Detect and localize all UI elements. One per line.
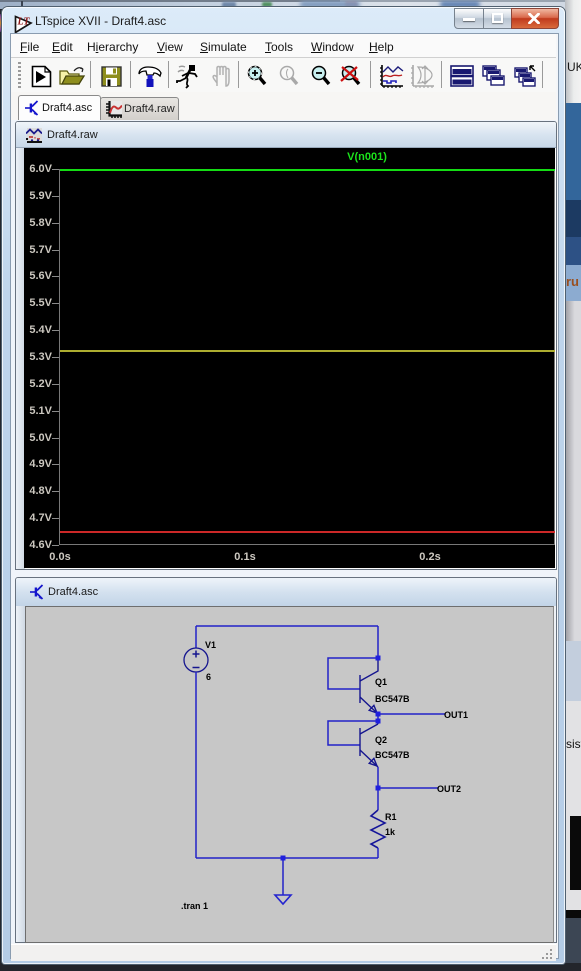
svg-text:BC547B: BC547B bbox=[375, 694, 410, 704]
node OUT1 junction bbox=[376, 712, 381, 717]
ground bbox=[275, 895, 291, 904]
svg-text:.tran 1: .tran 1 bbox=[181, 901, 208, 911]
desktop bottom strip bbox=[0, 963, 581, 971]
node Q1 collector junction bbox=[376, 656, 381, 661]
svg-text:6: 6 bbox=[206, 672, 211, 682]
resistor R1 bbox=[371, 810, 385, 848]
wire R1 bottom lead bbox=[377, 848, 379, 858]
wire top rail bbox=[196, 625, 378, 627]
separators bbox=[90, 61, 91, 88]
legend V(n001) bbox=[317, 151, 417, 163]
icon: zoom back (gray) bbox=[278, 65, 302, 88]
icon: zoom full extents bbox=[338, 65, 364, 88]
svg-text:LT: LT bbox=[17, 17, 31, 28]
icon: tile horizontal bbox=[450, 65, 474, 87]
y ticks bbox=[52, 169, 59, 170]
icon: zoom out bbox=[310, 65, 334, 88]
plot box bbox=[59, 169, 555, 545]
schematic canvas bbox=[25, 606, 554, 943]
tab bar bbox=[11, 92, 556, 121]
desktop right strip bbox=[565, 0, 581, 971]
wire bottom rail bbox=[196, 857, 378, 859]
node Q2 collector junction bbox=[376, 719, 381, 724]
icon: plot pane (gray) bbox=[410, 64, 436, 89]
icon: save bbox=[101, 66, 122, 87]
transistor Q1 bbox=[360, 658, 378, 714]
svg-text:1k: 1k bbox=[385, 827, 396, 837]
icon: control panel hammer bbox=[138, 65, 162, 88]
trace V(n001) green bbox=[60, 169, 555, 171]
svg-text:R1: R1 bbox=[385, 812, 397, 822]
node ground junction bbox=[281, 856, 286, 861]
voltage source V1 bbox=[184, 648, 208, 672]
wire Q2 base loop bbox=[328, 721, 378, 745]
icon: tile vertical bbox=[514, 65, 538, 87]
icon: cascade bbox=[482, 65, 506, 87]
wire node1-node2 bbox=[377, 714, 379, 724]
wire collector drop bbox=[377, 626, 379, 658]
wire OUT1 bbox=[378, 713, 445, 715]
status bar bbox=[11, 944, 556, 961]
trace yellow bbox=[60, 350, 555, 352]
LTspice logo bbox=[12, 13, 33, 34]
caption buttons bbox=[454, 8, 558, 28]
wire Q2 emitter lead bbox=[377, 767, 379, 788]
wire R1 top lead bbox=[377, 788, 379, 810]
svg-text:BC547B: BC547B bbox=[375, 750, 410, 760]
icon: open bbox=[59, 66, 86, 87]
svg-text:OUT1: OUT1 bbox=[444, 710, 468, 720]
wire Q1 base loop bbox=[328, 658, 378, 689]
svg-text:OUT2: OUT2 bbox=[437, 784, 461, 794]
icon: waveform window bbox=[379, 64, 405, 89]
grip bbox=[18, 62, 21, 88]
x labels bbox=[40, 551, 80, 563]
svg-text:Q2: Q2 bbox=[375, 735, 387, 745]
wire OUT2 bbox=[378, 787, 438, 789]
icon: zoom in bbox=[246, 65, 272, 88]
wire V1 top lead bbox=[195, 626, 197, 648]
toolbar bbox=[11, 58, 556, 93]
icon: new schematic bbox=[31, 65, 52, 88]
transistor Q2 bbox=[360, 724, 378, 767]
desktop top strip bbox=[0, 0, 581, 9]
y labels bbox=[24, 162, 52, 176]
trace red bbox=[60, 531, 555, 533]
svg-text:V1: V1 bbox=[205, 640, 216, 650]
node OUT2 junction bbox=[376, 786, 381, 791]
wire left rail bbox=[195, 672, 197, 858]
menu bar bbox=[11, 34, 556, 58]
inactive tab Draft4.raw bbox=[100, 97, 179, 122]
plot client bbox=[24, 148, 555, 568]
icon: halt (grayed hand) bbox=[209, 64, 233, 88]
title bar icon + text bbox=[2, 7, 565, 33]
wire ground stem bbox=[282, 858, 284, 895]
svg-text:Q1: Q1 bbox=[375, 677, 387, 687]
MDI client bbox=[11, 120, 556, 943]
icon: run bbox=[176, 64, 199, 89]
active tab Draft4.asc bbox=[18, 95, 101, 121]
